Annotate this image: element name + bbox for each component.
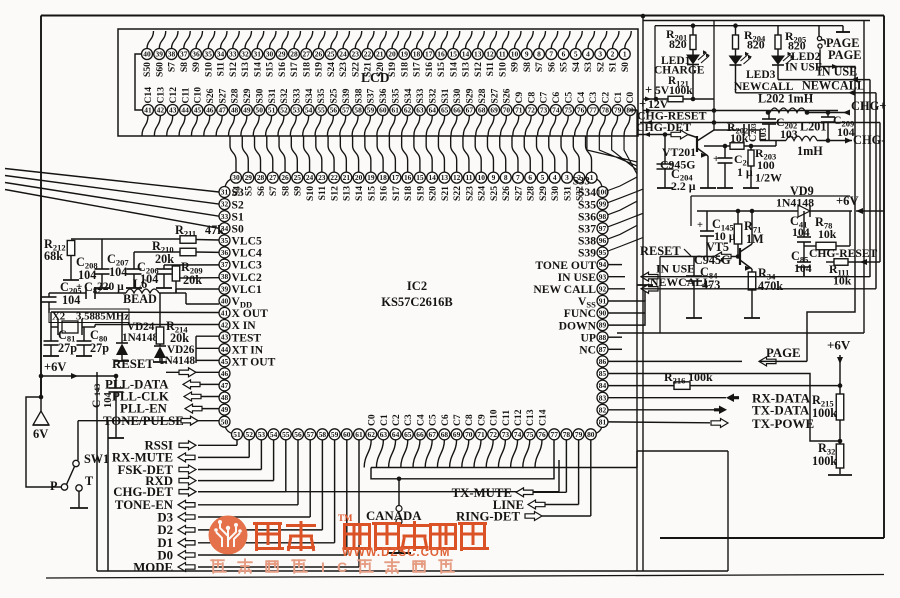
svg-text:24: 24: [306, 173, 314, 182]
svg-text:C12: C12: [513, 409, 524, 426]
svg-text:59: 59: [367, 106, 375, 115]
resistor R209: [172, 266, 180, 281]
svg-text:S13: S13: [461, 62, 472, 77]
svg-text:C2: C2: [601, 92, 612, 104]
svg-text:8: 8: [537, 50, 541, 59]
ground VSS bracket: [609, 301, 646, 325]
svg-text:S20: S20: [428, 186, 439, 201]
wire LCD right columns to bus: [587, 136, 637, 174]
svg-text:+6V: +6V: [44, 360, 66, 374]
svg-text:S38: S38: [578, 235, 596, 248]
LCD bottom pin labels: [143, 87, 636, 104]
switch SW1: [73, 460, 79, 466]
svg-text:15: 15: [416, 173, 424, 182]
svg-text:27: 27: [269, 173, 277, 182]
svg-text:75: 75: [526, 430, 534, 439]
svg-text:S22: S22: [452, 186, 463, 201]
svg-text:VLC3: VLC3: [232, 259, 262, 272]
svg-text:4: 4: [553, 173, 557, 182]
svg-text:17: 17: [425, 50, 433, 59]
svg-text:S39: S39: [578, 247, 596, 260]
wire P contact wire: [26, 397, 61, 487]
svg-text:1M: 1M: [746, 232, 764, 246]
svg-text:S34: S34: [578, 186, 596, 199]
wire border to 6V node: [40, 376, 42, 397]
wire R202 to L201: [775, 141, 777, 147]
svg-text:6: 6: [528, 173, 532, 182]
inductor L6 BEAD: [126, 289, 159, 293]
svg-text:47: 47: [218, 106, 226, 115]
wire charger box top: [655, 25, 819, 27]
svg-text:VLC1: VLC1: [232, 283, 262, 296]
svg-text:S15: S15: [265, 62, 276, 77]
diode VD9: [697, 210, 798, 212]
node CHG+: [807, 112, 850, 114]
svg-text:VLC2: VLC2: [232, 271, 262, 284]
svg-text:S7: S7: [534, 62, 545, 72]
svg-text:41: 41: [221, 309, 229, 318]
svg-text:S26: S26: [205, 88, 216, 103]
svg-text:32: 32: [241, 50, 249, 59]
svg-text:90: 90: [599, 309, 607, 318]
svg-text:21: 21: [343, 173, 351, 182]
svg-text:56: 56: [330, 106, 338, 115]
LED LED2: [777, 49, 779, 56]
svg-text:S13: S13: [240, 62, 251, 77]
svg-text:82: 82: [599, 405, 607, 414]
svg-text:104: 104: [62, 293, 80, 307]
svg-text:S0: S0: [620, 62, 631, 72]
svg-text:100k: 100k: [812, 406, 837, 420]
wire LCD left bracket: [135, 54, 148, 110]
switch PAGE: [818, 26, 820, 36]
svg-text:46: 46: [221, 369, 229, 378]
node CANADA: [398, 479, 400, 505]
wire inner frame bottom: [617, 332, 864, 334]
svg-text:49: 49: [221, 405, 229, 414]
resistor R32: [836, 444, 844, 468]
svg-text:54: 54: [305, 106, 313, 115]
svg-text:S30: S30: [254, 88, 265, 103]
svg-text:49: 49: [243, 106, 251, 115]
transistor VT5: [739, 248, 741, 265]
svg-text:C12: C12: [168, 87, 179, 104]
svg-text:C5: C5: [428, 414, 439, 426]
svg-text:S8: S8: [522, 62, 533, 72]
svg-text:S31: S31: [562, 186, 573, 201]
svg-text:S8: S8: [179, 62, 190, 72]
svg-text:TX-POWE: TX-POWE: [752, 416, 814, 431]
svg-text:38: 38: [221, 272, 229, 281]
transistor VT201: [696, 136, 698, 152]
svg-text:36: 36: [192, 50, 200, 59]
svg-text:NC: NC: [579, 344, 596, 357]
svg-text:C6: C6: [440, 414, 451, 426]
svg-text:44: 44: [221, 345, 229, 354]
node TX-POWE: [609, 421, 711, 424]
svg-text:S1: S1: [608, 62, 619, 72]
svg-text:53: 53: [293, 106, 301, 115]
svg-text:T: T: [85, 474, 93, 488]
svg-text:S6: S6: [256, 186, 267, 196]
svg-text:104: 104: [792, 225, 810, 239]
resistor R203: [749, 144, 754, 149]
LED LED3: [735, 49, 737, 56]
svg-text:C11: C11: [501, 410, 512, 426]
svg-text:S12: S12: [473, 62, 484, 77]
svg-text:P: P: [50, 479, 58, 493]
svg-text:XT IN: XT IN: [232, 343, 264, 356]
svg-text:S9: S9: [191, 62, 202, 72]
svg-text:29: 29: [278, 50, 286, 59]
svg-text:S17: S17: [289, 62, 300, 77]
svg-text:TONE OUT: TONE OUT: [535, 259, 596, 272]
node TONE-EN: [198, 504, 298, 506]
svg-text:3: 3: [598, 50, 602, 59]
IC2 top pin circles 30-1: [231, 172, 598, 183]
svg-text:C0: C0: [367, 414, 378, 426]
capacitor C85: [803, 246, 805, 262]
node RXD: [198, 480, 274, 482]
diode VD24: [121, 313, 123, 344]
svg-text:79: 79: [614, 106, 622, 115]
svg-text:820: 820: [747, 38, 765, 52]
svg-text:S14: S14: [354, 186, 365, 201]
wire C-bus left drop: [371, 440, 554, 479]
svg-text:KS57C2616B: KS57C2616B: [381, 295, 453, 309]
svg-text:72: 72: [527, 106, 535, 115]
resistor R201: [692, 26, 694, 35]
svg-text:36: 36: [221, 248, 229, 257]
svg-text:C3: C3: [588, 92, 599, 104]
svg-text:56: 56: [294, 430, 302, 439]
svg-text:C8: C8: [464, 414, 475, 426]
svg-text:S2: S2: [595, 62, 606, 72]
svg-text:35: 35: [205, 50, 213, 59]
svg-text:S33: S33: [415, 88, 426, 103]
svg-text:S5: S5: [559, 62, 570, 72]
svg-text:S34: S34: [403, 88, 414, 103]
svg-text:TM: TM: [338, 513, 353, 523]
wire VLC2 stub: [180, 277, 219, 279]
wire VDD bead bus: [49, 292, 86, 294]
svg-text:S14: S14: [448, 62, 459, 77]
svg-text:27p: 27p: [58, 341, 77, 355]
svg-text:S35: S35: [316, 88, 327, 103]
svg-text:95: 95: [599, 248, 607, 257]
svg-text:58: 58: [354, 106, 362, 115]
svg-text:S14: S14: [252, 62, 263, 77]
ground T contact: [78, 491, 80, 508]
svg-text:25: 25: [327, 50, 335, 59]
svg-text:69: 69: [453, 430, 461, 439]
svg-text:57: 57: [342, 106, 350, 115]
svg-text:S19: S19: [415, 186, 426, 201]
svg-text:C: C: [91, 400, 103, 408]
svg-text:66: 66: [416, 430, 424, 439]
resistor R202: [704, 145, 730, 147]
svg-text:30: 30: [232, 173, 240, 182]
ground CANADA: [398, 525, 400, 554]
svg-text:98: 98: [599, 212, 607, 221]
svg-text:S23: S23: [338, 62, 349, 77]
svg-text:92: 92: [599, 284, 607, 293]
svg-text:S1: S1: [232, 210, 244, 223]
svg-text:NEWCALL: NEWCALL: [734, 81, 794, 93]
svg-text:S18: S18: [399, 62, 410, 77]
svg-text:7: 7: [516, 173, 520, 182]
svg-text:C9: C9: [476, 414, 487, 426]
svg-text:C4: C4: [415, 414, 426, 426]
wire bottom-left frame left outer: [96, 372, 98, 571]
capacitor C204: [664, 135, 666, 165]
svg-text:1N4148: 1N4148: [159, 355, 195, 367]
svg-text:33: 33: [229, 50, 237, 59]
svg-text:BEAD: BEAD: [123, 292, 157, 306]
svg-text:S27: S27: [217, 88, 228, 103]
wire outer border top: [41, 15, 884, 17]
svg-text:C7: C7: [452, 414, 463, 426]
svg-text:34: 34: [217, 50, 225, 59]
svg-text:NEW CALL: NEW CALL: [533, 283, 596, 296]
svg-text:78: 78: [602, 106, 610, 115]
svg-text:39: 39: [156, 50, 164, 59]
svg-text:100k: 100k: [812, 454, 837, 468]
svg-text:65: 65: [404, 430, 412, 439]
svg-text:30: 30: [266, 50, 274, 59]
svg-text:62: 62: [368, 430, 376, 439]
svg-text:1/2W: 1/2W: [755, 171, 782, 185]
node D0: [198, 554, 347, 556]
svg-text:S28: S28: [477, 88, 488, 103]
svg-text:S6: S6: [546, 62, 557, 72]
node NEWCALL pin92: [609, 288, 626, 290]
svg-text:31: 31: [221, 188, 229, 197]
svg-text:68: 68: [441, 430, 449, 439]
wire bottom frame: [97, 570, 728, 572]
svg-text:1N4148: 1N4148: [122, 332, 158, 344]
svg-text:45: 45: [221, 357, 229, 366]
svg-text:XT OUT: XT OUT: [232, 355, 276, 368]
svg-text:87: 87: [599, 345, 607, 354]
svg-text:97: 97: [599, 224, 607, 233]
svg-text:C10: C10: [193, 87, 204, 104]
svg-text:16: 16: [404, 173, 412, 182]
wire pin85 route: [609, 374, 841, 442]
svg-text:CANADA: CANADA: [366, 509, 422, 523]
svg-text:38: 38: [168, 50, 176, 59]
svg-text:IN USE: IN USE: [558, 271, 597, 284]
LCD block outline: [118, 29, 638, 136]
svg-text:40: 40: [221, 296, 229, 305]
svg-text:6V: 6V: [33, 427, 48, 441]
wire C85-R111 link: [803, 267, 805, 276]
svg-text:C5: C5: [563, 92, 574, 104]
svg-text:C8: C8: [526, 92, 537, 104]
wire bus A: [636, 110, 638, 571]
svg-text:86: 86: [599, 357, 607, 366]
wire bus B: [642, 16, 644, 572]
svg-text:S12: S12: [329, 186, 340, 201]
svg-text:26: 26: [281, 173, 289, 182]
svg-text:76: 76: [577, 106, 585, 115]
IC2 right pin circles 100-81: [597, 187, 608, 428]
svg-text:73: 73: [540, 106, 548, 115]
svg-text:820: 820: [669, 37, 687, 51]
svg-text:11: 11: [499, 50, 506, 59]
svg-text:2: 2: [611, 50, 615, 59]
svg-text:S21: S21: [440, 186, 451, 201]
svg-text:S10: S10: [305, 186, 316, 201]
capacitor C201: [724, 146, 726, 158]
svg-text:S32: S32: [279, 88, 290, 103]
wire VLC bus2: [134, 251, 180, 253]
svg-text:26: 26: [315, 50, 323, 59]
capacitor C206: [163, 265, 165, 269]
svg-text:74: 74: [552, 106, 560, 115]
svg-text:35: 35: [221, 236, 229, 245]
wire pin87 stub: [609, 348, 623, 350]
wire S34-S39 diagonals to bus: [608, 177, 643, 251]
svg-text:X IN: X IN: [232, 319, 257, 332]
wire C-bus: [371, 467, 637, 469]
svg-text:C13: C13: [156, 87, 167, 104]
svg-text:VLC4: VLC4: [232, 247, 262, 260]
svg-text:68k: 68k: [44, 249, 63, 263]
svg-text:67: 67: [429, 430, 437, 439]
svg-text:47: 47: [221, 381, 229, 390]
svg-text:NEWCALL: NEWCALL: [650, 275, 711, 289]
op-amp IC2 chain outline: [225, 178, 603, 435]
svg-text:20: 20: [355, 173, 363, 182]
svg-text:78: 78: [563, 430, 571, 439]
svg-text:C13: C13: [525, 409, 536, 426]
node PAGE pin86: [609, 360, 743, 362]
svg-text:22: 22: [330, 173, 338, 182]
svg-text:S24: S24: [326, 62, 337, 77]
svg-text:S27: S27: [489, 88, 500, 103]
svg-text:51: 51: [268, 106, 276, 115]
svg-text:S5: S5: [244, 186, 255, 196]
svg-text:S17: S17: [391, 186, 402, 201]
svg-text:S35: S35: [578, 198, 596, 211]
svg-text:S8: S8: [280, 186, 291, 196]
svg-text:S29: S29: [465, 88, 476, 103]
svg-text:WWW.DZSC.COM: WWW.DZSC.COM: [342, 547, 450, 559]
svg-text:65: 65: [441, 106, 449, 115]
resistor R78: [816, 242, 836, 250]
svg-text:S25: S25: [489, 186, 500, 201]
capacitor C82: [85, 287, 87, 299]
svg-text:22: 22: [364, 50, 372, 59]
svg-text:54: 54: [270, 430, 278, 439]
svg-text:S35: S35: [390, 88, 401, 103]
svg-text:11: 11: [465, 173, 472, 182]
svg-text:46: 46: [206, 106, 214, 115]
resistor R71: [737, 211, 739, 224]
svg-text:71: 71: [477, 430, 485, 439]
wire C-bus right riser: [636, 451, 638, 468]
svg-text:S22: S22: [350, 62, 361, 77]
svg-text:1mH: 1mH: [797, 144, 823, 158]
svg-text:1N4148: 1N4148: [776, 196, 814, 210]
svg-text:94: 94: [599, 260, 607, 269]
svg-text:1: 1: [590, 173, 594, 182]
svg-text:S10: S10: [203, 62, 214, 77]
svg-text:IC2: IC2: [407, 279, 427, 293]
svg-text:C9: C9: [514, 92, 525, 104]
svg-text:S10: S10: [497, 62, 508, 77]
svg-text:X OUT: X OUT: [232, 307, 269, 320]
wire VLC bus3: [164, 264, 219, 266]
svg-text:C1: C1: [379, 414, 390, 426]
svg-text:75: 75: [565, 106, 573, 115]
svg-text:S37: S37: [578, 223, 596, 236]
svg-text:S19: S19: [314, 62, 325, 77]
node RX-DATA: [609, 397, 727, 399]
power 6V battery: [33, 411, 49, 425]
svg-text:2.2 µ: 2.2 µ: [671, 179, 696, 193]
wire CHG-DET extension: [198, 491, 559, 493]
power +6V left: [41, 375, 116, 377]
node D2: [198, 529, 322, 531]
svg-text:S36: S36: [378, 88, 389, 103]
svg-text:73: 73: [502, 430, 510, 439]
svg-text:S32: S32: [427, 88, 438, 103]
svg-text:SW1: SW1: [84, 452, 109, 466]
svg-text:S17: S17: [412, 62, 423, 77]
IC2 left pin labels: [232, 186, 276, 368]
crystal X2: [62, 321, 78, 333]
svg-text:20k: 20k: [155, 252, 174, 266]
svg-text:S21: S21: [363, 62, 374, 77]
svg-text:77: 77: [589, 106, 597, 115]
svg-text:47k: 47k: [205, 223, 224, 237]
inductor L202: [770, 108, 806, 113]
svg-text:13: 13: [474, 50, 482, 59]
svg-text:33: 33: [221, 212, 229, 221]
svg-text:41: 41: [144, 106, 152, 115]
svg-text:CHG-RESET: CHG-RESET: [809, 247, 878, 260]
svg-text:C14: C14: [143, 87, 154, 104]
capacitor C84: [693, 257, 695, 277]
wire S3-S0 diagonals: [5, 169, 219, 229]
svg-text:RING-DET: RING-DET: [456, 510, 520, 524]
capacitor C205: [48, 293, 50, 297]
svg-text:S26: S26: [501, 186, 512, 201]
svg-text:76: 76: [538, 430, 546, 439]
svg-text:S39: S39: [341, 88, 352, 103]
wire PAGE riser: [807, 49, 855, 361]
svg-text:88: 88: [599, 333, 607, 342]
capacitor C41: [803, 211, 805, 237]
svg-text:19: 19: [367, 173, 375, 182]
svg-text:S24: S24: [477, 186, 488, 201]
svg-text:S15: S15: [436, 62, 447, 77]
svg-text:C: C: [748, 135, 759, 142]
svg-text:S18: S18: [301, 62, 312, 77]
svg-text:S34: S34: [304, 88, 315, 103]
capacitor C207: [133, 252, 135, 269]
svg-text:8: 8: [504, 173, 508, 182]
svg-text:7: 7: [549, 50, 553, 59]
node FSK-DET: [198, 469, 261, 471]
svg-text:S16: S16: [424, 62, 435, 77]
svg-text:37: 37: [180, 50, 188, 59]
svg-text:44: 44: [181, 106, 189, 115]
resistor R216: [609, 385, 675, 387]
svg-text:S30: S30: [550, 186, 561, 201]
